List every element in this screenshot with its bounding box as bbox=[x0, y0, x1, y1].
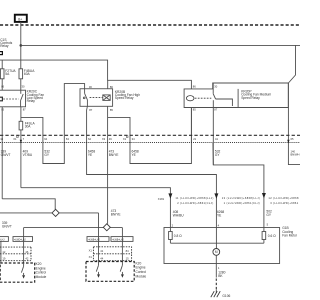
svg-text:GN/VT: GN/VT bbox=[2, 225, 12, 229]
wire stub KR20B pin 86 bbox=[107, 80, 109, 88]
svg-text:1 (LLU/LWD)+6861(CLJ): 1 (LLU/LWD)+6861(CLJ) bbox=[224, 201, 260, 205]
svg-text:30: 30 bbox=[89, 85, 92, 89]
svg-text:34: 34 bbox=[132, 137, 135, 141]
X181 pin text rows group2 bbox=[222, 196, 260, 205]
connector arrow pin65 bbox=[287, 140, 289, 144]
connector arrow pin7 bbox=[20, 140, 22, 144]
connector band X50A dashed bbox=[0, 134, 300, 136]
svg-text:60A: 60A bbox=[24, 72, 31, 76]
svg-text:K20: K20 bbox=[136, 261, 142, 265]
wire dashed ground segment bbox=[215, 279, 217, 290]
relay KR20C Cooling Fan Low Speed Relay bbox=[0, 84, 44, 111]
svg-text:Engine: Engine bbox=[136, 266, 146, 270]
node rail1 junction bbox=[20, 44, 23, 47]
svg-text:85: 85 bbox=[1, 108, 4, 112]
ECM K20 right dashed box bbox=[86, 261, 146, 281]
svg-text:30: 30 bbox=[214, 85, 217, 89]
splice diamond S2 bbox=[103, 224, 110, 231]
svg-text:44: 44 bbox=[100, 256, 103, 260]
svg-text:19: 19 bbox=[2, 257, 5, 261]
svg-text:42: 42 bbox=[25, 257, 28, 261]
svg-text:16: 16 bbox=[0, 137, 3, 141]
svg-text:Module: Module bbox=[136, 275, 147, 279]
ground G106 bbox=[211, 290, 231, 299]
wire splice1 to splice2 bus bbox=[98, 213, 100, 237]
svg-text:X1: X1 bbox=[123, 137, 127, 141]
connector arrow fan pin2 bbox=[168, 193, 172, 198]
svg-text:Fan Motor: Fan Motor bbox=[282, 234, 298, 238]
ECM right connector dotted box bbox=[89, 247, 132, 261]
svg-text:30: 30 bbox=[22, 84, 25, 88]
svg-text:VT/BU: VT/BU bbox=[23, 153, 33, 157]
svg-text:11 (LLU/LWD)+6868(LLJ): 11 (LLU/LWD)+6868(LLJ) bbox=[175, 196, 213, 200]
wire ECM drop left bbox=[23, 228, 25, 263]
svg-text:0.8 Ω: 0.8 Ω bbox=[174, 234, 182, 238]
resistor 0.6 ohm bbox=[262, 232, 276, 240]
wire splice bus horizontal bbox=[0, 212, 99, 214]
wire fused low speed feed down to connector bbox=[20, 130, 22, 188]
wire battery drop bbox=[20, 22, 22, 69]
svg-text:13 (LLU/LWD)+6868(LLJ): 13 (LLU/LWD)+6868(LLJ) bbox=[222, 196, 260, 200]
wire ignition rail 2 to KR20P coil feed bbox=[0, 60, 191, 89]
svg-text:86: 86 bbox=[110, 85, 113, 89]
harness label box LWB/LHJ mid bbox=[87, 237, 109, 242]
wire KR20P box right edge pin65 run bbox=[288, 83, 300, 165]
svg-text:X1: X1 bbox=[89, 248, 93, 252]
svg-text:64: 64 bbox=[44, 137, 47, 141]
svg-text:WH/BU: WH/BU bbox=[173, 214, 184, 218]
svg-text:41: 41 bbox=[100, 249, 103, 253]
motor M circle bbox=[213, 249, 220, 256]
wire KR20P pin85 stub above connector bbox=[190, 108, 192, 143]
connector arrow fan pin5 bbox=[262, 193, 266, 198]
fan connector pin numbers bbox=[172, 222, 269, 227]
svg-text:63: 63 bbox=[66, 137, 69, 141]
dashed power distribution boundary rail bbox=[0, 24, 300, 26]
svg-text:Speed Relay: Speed Relay bbox=[115, 96, 134, 100]
svg-text:=LWB=LHJ: =LWB=LHJ bbox=[88, 239, 100, 241]
wire 339 GN/VT to splice bbox=[2, 199, 55, 210]
svg-text:86: 86 bbox=[193, 85, 196, 89]
connector arrow fan pin4 bbox=[214, 193, 218, 198]
wire KR20C pin87 output bbox=[20, 107, 22, 122]
relay KR20B Cooling Fan High Speed Relay bbox=[80, 85, 140, 112]
wire motor ground lead bbox=[215, 255, 217, 277]
wire ECM far-left pin bbox=[0, 241, 2, 263]
svg-text:G106: G106 bbox=[222, 294, 230, 298]
svg-text:BN/YE: BN/YE bbox=[111, 213, 122, 217]
ECM driver switch left bbox=[21, 263, 25, 279]
wire B+ rail 1 bbox=[21, 44, 300, 46]
wire KR20C pin30 feed bbox=[20, 79, 22, 90]
svg-text:86: 86 bbox=[1, 84, 4, 88]
wire resistor bus bbox=[169, 240, 171, 244]
connector band dotted bbox=[0, 142, 300, 144]
svg-text:Control: Control bbox=[136, 270, 147, 274]
svg-text:=LWB=LHJ: =LWB=LHJ bbox=[112, 239, 124, 241]
svg-text:12: 12 bbox=[2, 250, 5, 254]
svg-text:87: 87 bbox=[214, 108, 217, 112]
svg-text:84: 84 bbox=[126, 249, 129, 253]
fan motor G1B box bbox=[164, 226, 298, 264]
harness label box LWD/LHJ left bbox=[13, 237, 33, 242]
svg-text:GN/VT: GN/VT bbox=[1, 153, 11, 157]
svg-text:GY: GY bbox=[215, 153, 221, 157]
svg-text:X1: X1 bbox=[89, 255, 93, 259]
svg-text:Relay: Relay bbox=[0, 44, 9, 48]
battery B+ junction box bbox=[15, 15, 27, 22]
svg-text:=LHJ: =LHJ bbox=[0, 239, 4, 241]
svg-text:87: 87 bbox=[23, 107, 26, 111]
fuse F4BUA 60A bbox=[19, 69, 35, 79]
ECM K20 left dashed box bbox=[0, 262, 46, 282]
svg-text:21: 21 bbox=[193, 137, 196, 141]
wire ECM drop mid bbox=[98, 237, 100, 262]
splice diamond S1 bbox=[52, 209, 59, 216]
wire 532 branch to pin64 jumper bbox=[21, 84, 85, 164]
svg-text:41: 41 bbox=[215, 137, 218, 141]
svg-text:85: 85 bbox=[110, 108, 113, 112]
svg-text:X3: X3 bbox=[102, 137, 106, 141]
wire labels under band bbox=[1, 149, 300, 157]
svg-text:65: 65 bbox=[291, 137, 294, 141]
svg-text:62: 62 bbox=[88, 137, 91, 141]
X181 pin text rows group3 bbox=[268, 196, 299, 205]
ECM driver switch mid bbox=[96, 262, 100, 278]
wire low speed feed across to fan pin2 bbox=[21, 188, 171, 232]
resistor 0.8 ohm bbox=[169, 232, 183, 240]
wire KR20B pin85 coil control bbox=[107, 106, 109, 224]
ECM left connector dotted box bbox=[0, 247, 31, 261]
svg-text:30A: 30A bbox=[25, 125, 32, 129]
svg-text:Module: Module bbox=[36, 275, 47, 279]
fuse F2TUA 5A bbox=[0, 60, 16, 79]
band pin labels bbox=[0, 136, 294, 141]
wire jumper pin34 to pin21 to KR20P pin85 bbox=[108, 108, 192, 164]
fuse F4SLA 30A bbox=[19, 121, 35, 130]
relay KR20P Cooling Fan Medium Speed Relay bbox=[184, 83, 288, 112]
svg-text:Relay: Relay bbox=[27, 99, 36, 103]
svg-text:0.6 Ω: 0.6 Ω bbox=[268, 234, 276, 238]
page reference icon bbox=[0, 52, 2, 55]
harness label box LHJ left edge bbox=[0, 237, 8, 242]
svg-text:BN/WH: BN/WH bbox=[291, 153, 300, 157]
wire ECM drop right bbox=[121, 228, 123, 262]
label C1S Controls Relay bbox=[0, 38, 12, 48]
svg-text:X181: X181 bbox=[158, 197, 165, 201]
wire 532 GY pin41 to fan high feed bbox=[212, 143, 214, 165]
wire KR20C pin85 to ECM bbox=[1, 107, 3, 199]
svg-text:2 (LLU/LWD)+6861(CLJ): 2 (LLU/LWD)+6861(CLJ) bbox=[177, 201, 213, 205]
svg-text:15: 15 bbox=[126, 256, 129, 260]
svg-text:46: 46 bbox=[25, 250, 28, 254]
harness label box LWB/LHJ right bbox=[111, 237, 133, 242]
svg-text:3 (LLU/LWD)+6861: 3 (LLU/LWD)+6861 bbox=[270, 201, 299, 205]
ECM driver switch right bbox=[120, 262, 124, 278]
svg-text:B+: B+ bbox=[18, 18, 22, 22]
svg-text:46: 46 bbox=[109, 137, 112, 141]
wire KR20C coil feed bbox=[1, 79, 3, 90]
svg-text:Speed Relay: Speed Relay bbox=[241, 96, 260, 100]
X181 pin text rows group1 bbox=[175, 196, 213, 205]
svg-text:BN/YE: BN/YE bbox=[109, 153, 120, 157]
svg-text:GY: GY bbox=[266, 213, 272, 217]
svg-text:M: M bbox=[215, 250, 218, 254]
fan wire labels bbox=[173, 210, 272, 218]
wire KR20P pin87 medium speed output bbox=[213, 108, 264, 232]
svg-text:85: 85 bbox=[193, 108, 196, 112]
svg-text:Engine: Engine bbox=[36, 266, 46, 270]
svg-text:12 (LLU/LWD)+6868: 12 (LLU/LWD)+6868 bbox=[268, 196, 299, 200]
svg-text:K20: K20 bbox=[36, 262, 42, 266]
svg-text:87: 87 bbox=[89, 108, 92, 112]
wire KR20B pin87 high speed output bbox=[87, 106, 217, 248]
wire ECM bus horizontal bbox=[24, 227, 123, 229]
svg-text:=LWD=LHJ: =LWD=LHJ bbox=[14, 239, 26, 241]
svg-text:Control: Control bbox=[36, 271, 47, 275]
svg-text:GY: GY bbox=[44, 153, 50, 157]
wire rail1 drop to KR20P pin30 bbox=[288, 45, 295, 83]
